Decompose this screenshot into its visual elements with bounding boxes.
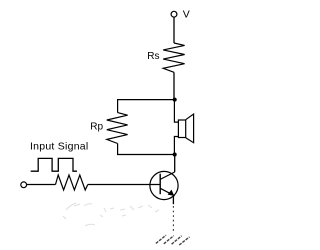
- svg-text:V: V: [183, 9, 190, 21]
- svg-text:Rs: Rs: [147, 51, 159, 62]
- transistor Q1 base bar: [159, 174, 161, 195]
- watermark: [63, 203, 159, 226]
- wire speaker bottom lead to node B: [174, 137, 178, 155]
- node B junction: [173, 153, 177, 157]
- transistor Q1 collector: [160, 172, 175, 179]
- ground: [156, 235, 190, 245]
- node A junction: [173, 98, 177, 102]
- wire Rp bottom to node B: [118, 144, 175, 155]
- wire Rs to node A: [173, 72, 175, 99]
- wire V to Rs: [173, 17, 175, 43]
- series input resistor: [56, 175, 88, 190]
- terminal V: [171, 11, 177, 17]
- wire node B to collector: [174, 155, 176, 173]
- resistor Rs: [163, 43, 184, 72]
- wire input terminal to series resistor: [27, 184, 56, 186]
- resistor Rp: [107, 113, 128, 144]
- input signal waveform symbol: [31, 158, 77, 171]
- wire emitter dashed through watermark: [172, 206, 174, 232]
- transistor Q1 emitter arrow: [168, 190, 175, 196]
- wire emitter down: [172, 196, 174, 204]
- wire node A to Rp top: [118, 100, 175, 113]
- speaker LS1 horn: [186, 114, 194, 143]
- input terminal: [21, 182, 27, 188]
- svg-text:Input Signal: Input Signal: [30, 140, 88, 152]
- wire series resistor to base: [88, 184, 160, 186]
- wire node A to speaker top lead: [174, 100, 178, 123]
- transistor Q1 emitter: [160, 188, 175, 196]
- speaker LS1 body: [178, 120, 185, 138]
- svg-text:Rp: Rp: [90, 121, 103, 132]
- transistor Q1 circle: [150, 171, 178, 199]
